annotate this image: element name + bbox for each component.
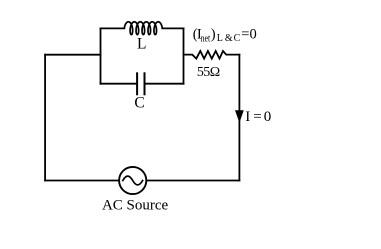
svg-text:=0: =0 [241,27,256,43]
svg-text:L: L [137,35,146,52]
svg-text:&: & [225,33,233,44]
svg-text:net: net [201,33,211,44]
svg-text:=: = [253,109,261,125]
svg-text:0: 0 [264,109,272,125]
svg-text:C: C [234,33,241,44]
svg-text:I: I [245,109,250,125]
svg-text:55Ω: 55Ω [197,65,220,80]
svg-text:L: L [217,33,223,44]
svg-text:): ) [211,27,216,43]
svg-text:AC Source: AC Source [102,198,169,214]
svg-text:C: C [134,94,144,111]
